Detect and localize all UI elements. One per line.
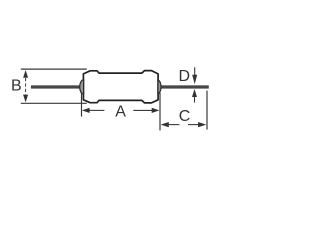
lead wire left bbox=[31, 85, 83, 88]
dimension A left extension line bbox=[81, 92, 83, 116]
dimension A line right segment bbox=[133, 109, 152, 111]
dimension B arrow shaft bbox=[25, 78, 27, 95]
left end cap dome bbox=[80, 80, 84, 94]
dimension B top tick bbox=[21, 68, 87, 70]
svg-text:A: A bbox=[115, 104, 126, 121]
svg-text:B: B bbox=[11, 78, 22, 95]
dimension D arrow up bbox=[192, 89, 197, 97]
resistor body R1 bbox=[83, 71, 158, 103]
dimension B arrow up bbox=[23, 70, 28, 78]
dimension A line left segment bbox=[89, 109, 105, 111]
dimension A left arrowhead bbox=[82, 108, 90, 113]
dimension A right extension line bbox=[159, 93, 161, 131]
dimension C right arrowhead bbox=[198, 122, 206, 127]
svg-text:D: D bbox=[179, 68, 191, 85]
dimension D arrow down bbox=[194, 67, 196, 75]
dimension B bottom tick bbox=[21, 102, 87, 104]
dimension C line left segment bbox=[168, 124, 180, 126]
dimension C line right segment bbox=[188, 124, 200, 126]
svg-text:C: C bbox=[179, 108, 191, 125]
lead wire right bbox=[158, 85, 209, 88]
dimension C left arrowhead bbox=[161, 122, 169, 127]
dimension B arrow down bbox=[23, 95, 28, 103]
dimension A right arrowhead bbox=[152, 108, 160, 113]
dimension C right extension line bbox=[206, 91, 208, 130]
right end cap dome bbox=[158, 80, 161, 93]
